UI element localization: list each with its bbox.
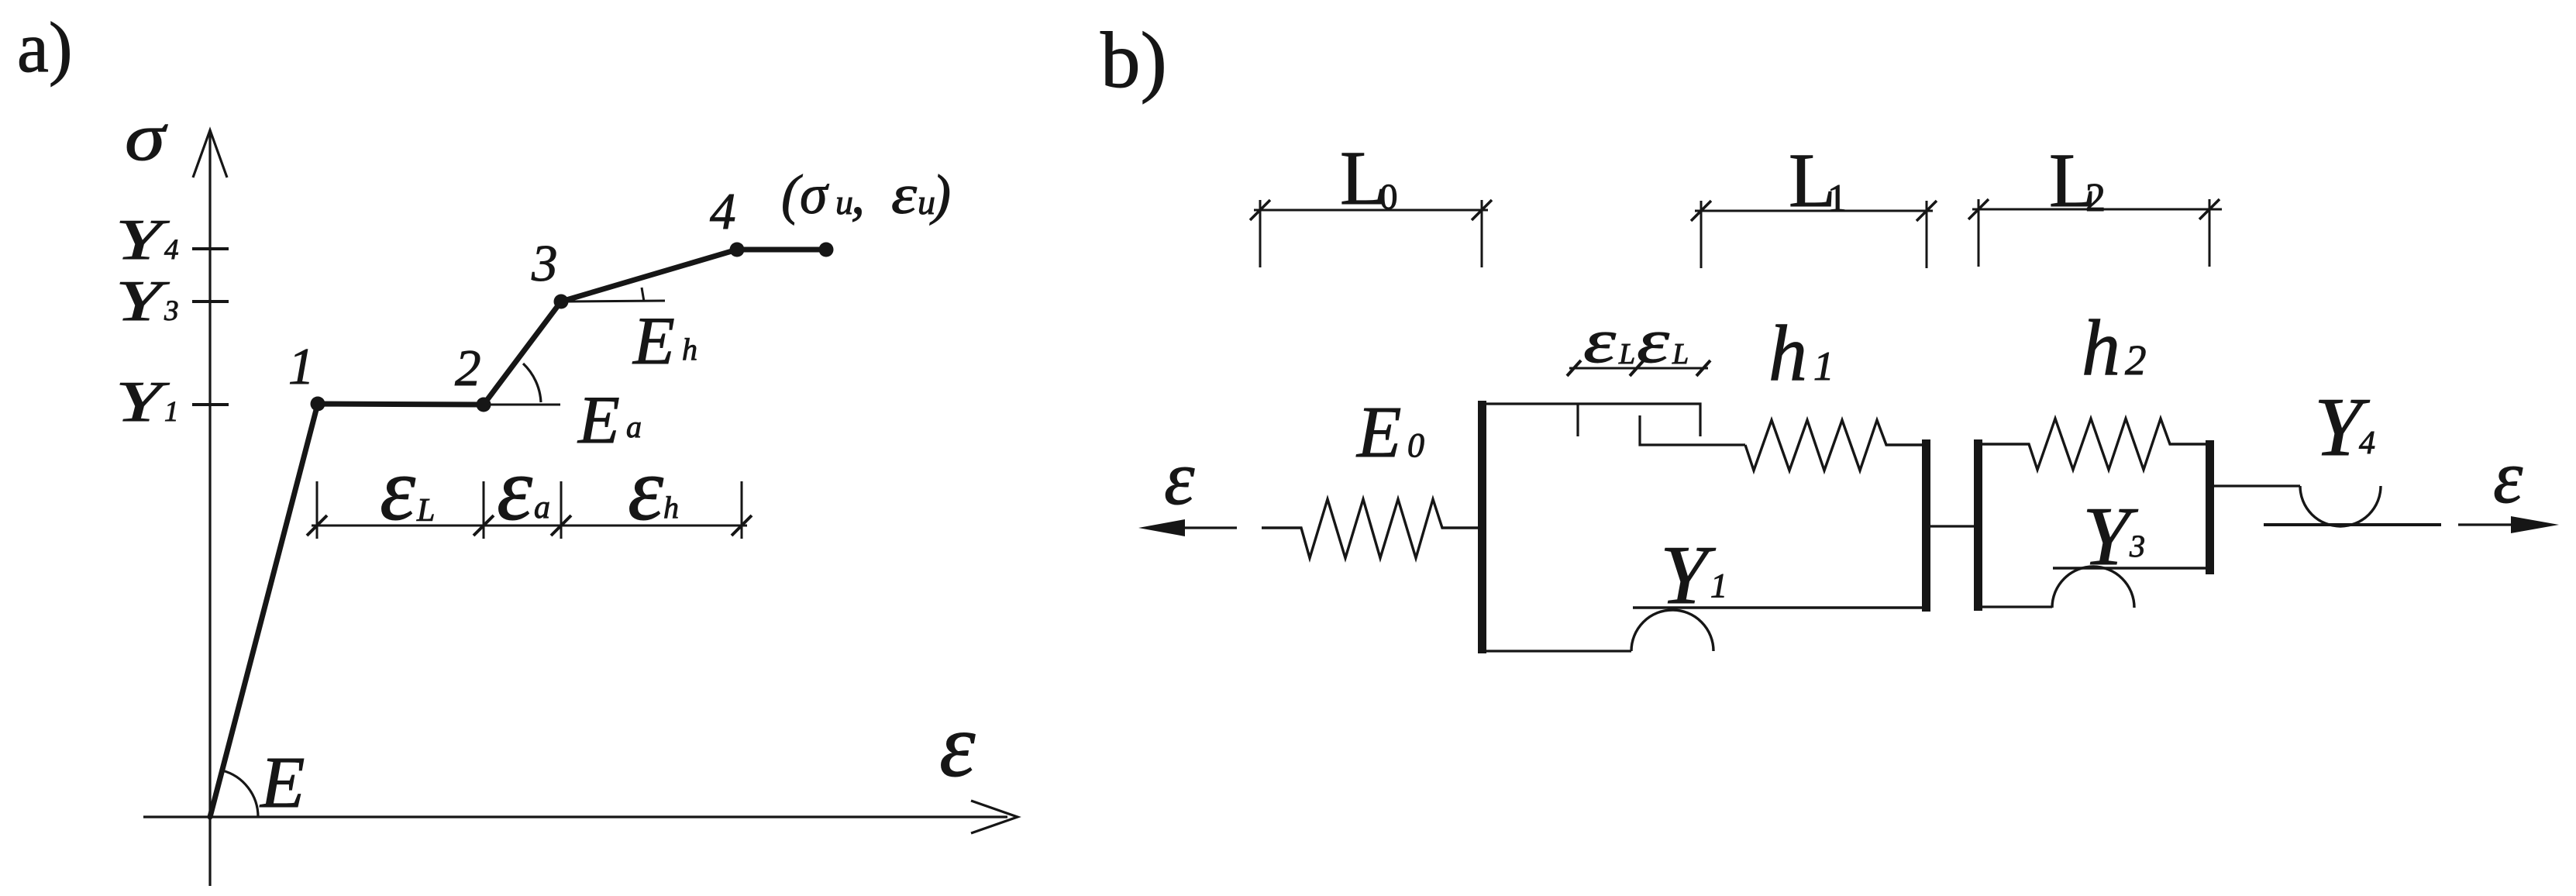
label Y1 [1660,529,1727,622]
dim tick at point3 x [551,481,571,539]
dim tick at point1 x [307,481,327,539]
series connector between groups [1926,525,1978,527]
epsilon axis (horizontal) [143,801,1018,833]
svg-text:ε: ε [1583,305,1617,376]
svg-text:a): a) [17,8,72,87]
svg-text:2: 2 [455,339,481,397]
svg-text:4: 4 [2359,426,2375,461]
svg-text:,: , [851,164,865,226]
dimension L0 [1250,200,1492,267]
svg-text:ε: ε [380,439,415,539]
tick Y1 [192,403,229,406]
slider Y4 plate [2264,523,2441,526]
label 2 [455,339,481,397]
svg-text:Y: Y [1660,529,1716,622]
svg-text:3: 3 [2129,529,2145,563]
svg-text:h: h [1768,309,1807,398]
label L2 [2049,137,2106,223]
gap lower jaw [1640,415,1745,445]
panel label a) [17,8,72,87]
label Ea [577,383,642,458]
svg-text:1: 1 [1710,567,1727,605]
point 4 dot [730,243,745,257]
sigma axis label [125,100,168,175]
svg-text:ε: ε [1164,435,1195,521]
epsilon_L epsilon_L dimension [1567,360,1710,376]
sigma axis (vertical) [193,130,227,886]
label Y4 [115,208,179,272]
svg-text:L: L [416,493,435,529]
spring h2 [1978,419,2206,470]
tick Y4 [192,247,229,250]
panel label b) [1100,16,1167,105]
strain dimension line (bottom of panel a) [312,525,747,527]
svg-text:1: 1 [1827,176,1847,219]
svg-text:1: 1 [288,338,315,395]
svg-text:ε: ε [939,694,976,796]
svg-text:h: h [663,490,679,525]
svg-text:(σ: (σ [781,164,829,226]
slider Y4 cup [2300,486,2381,526]
label Y4 [2314,381,2375,474]
svg-text:0: 0 [1379,177,1398,217]
left strain arrow [1138,519,1237,536]
svg-text:E: E [577,383,620,458]
svg-text:): ) [929,164,951,226]
angle arc at point 2 [523,364,541,402]
reference line at point 3 [568,301,665,302]
svg-text:ε: ε [497,439,532,539]
svg-text:ε: ε [628,439,663,539]
junction bar B [1974,439,1982,611]
slider Y4 lead line [2210,484,2300,487]
label h2 [2082,304,2147,392]
svg-text:E: E [1355,392,1401,473]
left junction bar [1478,401,1486,653]
svg-text:ε: ε [891,164,918,226]
svg-text:Y: Y [115,270,170,333]
label 1 [288,338,315,395]
top branch line with gap hook [1482,404,1700,436]
label Y1 [115,370,179,434]
point 3 dot [554,295,569,309]
slider Y1 plate [1633,606,1922,608]
bottom branch line group 1 [1482,650,1631,652]
label epsilon right [2493,436,2523,519]
slider Y3 plate [2053,567,2206,569]
label epsilon_a (panel a) [497,439,550,539]
svg-text:ε: ε [2493,436,2523,519]
tick Y3 [192,300,229,303]
svg-text:Y: Y [115,208,170,272]
spring h1 [1745,420,1922,470]
angle tick at point 3 [642,288,644,302]
dim tick at point4 x [732,481,752,539]
reference line at point 2 [484,404,560,406]
end point dot [819,243,834,257]
gap tick (epsilon_L reference) [1576,404,1579,436]
svg-text:2: 2 [2125,336,2147,384]
right strain arrow [2458,516,2559,533]
dimension L2 [1968,199,2222,267]
svg-text:a: a [534,490,550,526]
svg-text:Y: Y [115,370,170,434]
svg-text:0: 0 [1407,426,1424,464]
label h1 [1768,309,1834,398]
label E0 [1355,392,1424,473]
point 2 dot [477,398,491,412]
svg-text:E: E [632,304,675,379]
dimension L1 [1691,201,1937,268]
svg-text:h: h [2082,304,2120,392]
label L1 [1789,137,1847,223]
label Eh [632,304,697,379]
label L0 [1340,135,1398,221]
slider Y1 dome [1631,610,1713,651]
slider Y3 dome [2052,567,2134,608]
junction bar A [1922,439,1930,612]
label 4 [710,183,736,240]
svg-text:2: 2 [2085,176,2106,220]
point 1 dot [311,397,325,412]
svg-text:3: 3 [531,235,558,292]
svg-text:L: L [1618,338,1635,370]
label 3 [531,235,558,292]
stress-strain curve [210,250,826,817]
svg-text:b): b) [1100,16,1167,105]
svg-text:E: E [259,743,305,823]
label Y3 [115,270,179,333]
label Y3 [2082,491,2145,583]
svg-text:1: 1 [164,396,179,428]
junction bar C [2206,440,2214,574]
svg-text:1: 1 [1813,344,1834,389]
svg-text:L: L [1672,338,1689,370]
label epsilon_L (panel a) [380,439,435,539]
label epsilon_L epsilon_L [1583,305,1689,376]
svg-text:4: 4 [710,183,736,240]
label E (origin modulus) [259,743,305,823]
spring E0 [1262,499,1478,558]
epsilon axis label [939,694,976,796]
label epsilon_h (panel a) [628,439,679,539]
svg-text:h: h [682,332,697,367]
svg-text:3: 3 [164,295,179,327]
svg-text:σ: σ [125,100,168,175]
label epsilon left [1164,435,1195,521]
dim tick at point2 x [474,481,494,539]
angle arc E at origin [222,770,258,817]
label (sigma_u, epsilon_u) [781,164,951,226]
svg-text:ε: ε [1637,305,1670,376]
bottom branch line group 2 [1978,605,2052,608]
svg-text:4: 4 [164,234,179,266]
